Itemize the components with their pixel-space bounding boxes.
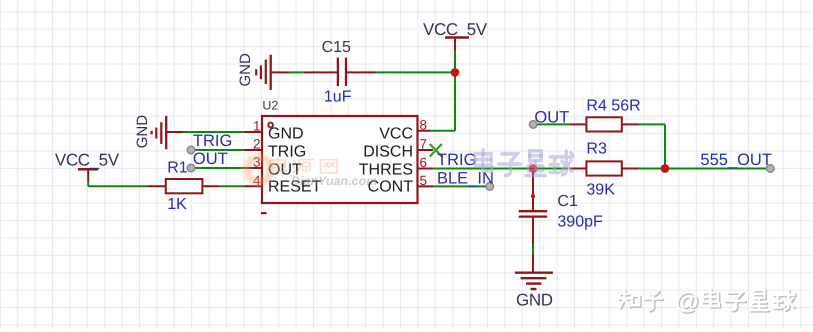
svg-text:GND: GND (268, 125, 304, 142)
svg-text:OUT: OUT (193, 150, 228, 168)
svg-text:DianYuan.com: DianYuan.com (291, 174, 377, 188)
svg-text:U2: U2 (262, 99, 278, 113)
svg-text:1uF: 1uF (324, 89, 352, 106)
svg-text:GND: GND (134, 115, 151, 149)
svg-text:OUT: OUT (534, 109, 569, 127)
svg-text:VCC_5V: VCC_5V (55, 150, 120, 169)
svg-text:5: 5 (420, 173, 428, 188)
svg-text:1K: 1K (167, 196, 187, 213)
svg-text:C1: C1 (557, 193, 578, 210)
svg-text:GND: GND (237, 53, 254, 87)
svg-text:6: 6 (420, 155, 428, 170)
svg-text:DISCH: DISCH (363, 143, 413, 160)
svg-text:GND: GND (516, 291, 553, 310)
svg-text:VCC: VCC (379, 125, 413, 142)
svg-text:R3: R3 (586, 141, 607, 158)
svg-text:TRIG: TRIG (268, 143, 306, 160)
svg-text:VCC_5V: VCC_5V (423, 20, 488, 39)
svg-text:R4 56R: R4 56R (586, 98, 640, 115)
svg-text:@: @ (675, 288, 699, 315)
svg-text:2: 2 (253, 137, 261, 152)
svg-text:39K: 39K (586, 182, 615, 199)
svg-text:TRIG: TRIG (193, 132, 232, 150)
svg-text:1: 1 (253, 119, 261, 134)
svg-text:555_OUT: 555_OUT (700, 151, 772, 169)
svg-text:390pF: 390pF (557, 213, 603, 230)
svg-text:R1: R1 (167, 159, 188, 176)
svg-text:7: 7 (420, 137, 428, 152)
svg-text:8: 8 (420, 117, 428, 132)
svg-text:C15: C15 (322, 39, 351, 56)
svg-text:TRIG: TRIG (437, 151, 476, 169)
